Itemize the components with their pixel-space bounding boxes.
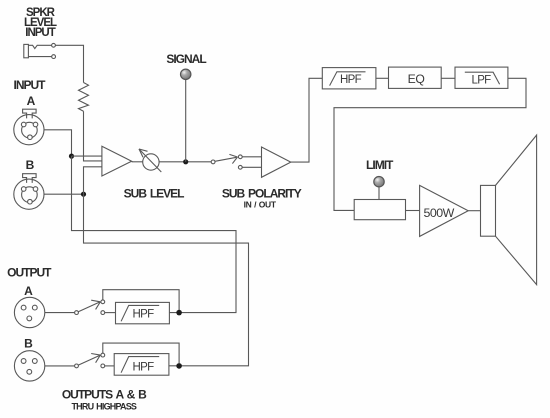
svg-text:EQ: EQ	[408, 72, 425, 86]
wire LPF to limiter	[334, 78, 526, 210]
op-amp U2 SUB POLARITY	[262, 147, 291, 177]
wire XLR out B to switch	[45, 365, 75, 367]
connector XLR input A	[14, 109, 44, 145]
wire switch contacts to sub polarity amp	[242, 157, 261, 168]
svg-text:HPF: HPF	[133, 308, 155, 320]
wire A junction to amp input 1	[72, 155, 102, 157]
svg-text:THRU HIGHPASS: THRU HIGHPASS	[71, 401, 136, 411]
svg-text:B: B	[24, 337, 33, 351]
connector XLR output B	[14, 351, 44, 381]
node input B junction	[81, 192, 86, 197]
wire switch to HPF B	[105, 365, 115, 367]
filter HPF output B	[114, 354, 169, 376]
wire XLR B to junction	[44, 193, 84, 195]
svg-text:HPF: HPF	[133, 362, 155, 374]
filter HPF output A	[116, 302, 170, 323]
wire bypass A	[103, 290, 179, 310]
svg-text:LIMIT: LIMIT	[366, 158, 394, 172]
wire HPF to EQ	[376, 77, 389, 79]
wire resistor to sub level amp input 2	[84, 111, 102, 161]
svg-text:SUB LEVEL: SUB LEVEL	[124, 187, 185, 201]
svg-text:IN / OUT: IN / OUT	[244, 200, 277, 210]
wire B thru feed to output B	[84, 194, 249, 366]
wire amp to pot	[132, 161, 143, 163]
filter LPF	[455, 67, 508, 88]
speaker LS1	[481, 135, 537, 285]
svg-text:LPF: LPF	[472, 74, 492, 86]
wire amp to speaker	[468, 210, 480, 212]
amplifier 500W	[420, 185, 469, 236]
wire switch to HPF A	[105, 312, 116, 314]
switch output A	[75, 300, 105, 315]
svg-text:OUTPUTS A & B: OUTPUTS A & B	[62, 387, 147, 401]
svg-text:INPUT: INPUT	[25, 27, 55, 39]
wire EQ to LPF	[441, 77, 455, 79]
label SPKR LEVEL INPUT	[24, 7, 57, 39]
svg-text:B: B	[26, 158, 35, 172]
wire bypass B	[103, 343, 179, 363]
LED limit	[374, 177, 384, 187]
wire LED limit stem	[378, 187, 380, 200]
node signal junction	[183, 159, 188, 164]
connector J1 speaker level input jack	[24, 43, 56, 58]
node output B junction	[176, 363, 182, 369]
node output A junction	[176, 310, 182, 316]
wire A thru feed to output A	[72, 156, 237, 313]
wire sub polarity amp to HPF	[291, 78, 323, 162]
wire junction to signal LED	[185, 80, 187, 162]
wire jack to resistor	[55, 45, 83, 82]
filter EQ	[389, 67, 442, 88]
LED signal	[181, 69, 191, 79]
filter HPF main	[322, 68, 376, 89]
resistor R1	[79, 83, 89, 112]
limiter block	[354, 200, 405, 220]
connector XLR input B	[14, 174, 44, 210]
svg-text:500W: 500W	[424, 206, 455, 220]
switch output B	[75, 353, 105, 368]
wire XLR A to junction	[44, 130, 72, 156]
wire pot to switch	[159, 161, 211, 163]
switch sub polarity	[211, 154, 242, 169]
svg-text:HPF: HPF	[340, 74, 362, 86]
svg-text:INPUT: INPUT	[14, 78, 47, 92]
potentiometer sub level	[139, 149, 161, 172]
wire XLR out A to switch	[45, 312, 75, 314]
connector XLR output A	[14, 297, 44, 327]
svg-text:OUTPUT: OUTPUT	[7, 265, 52, 279]
wire B junction to amp input 3	[84, 167, 102, 194]
node input A junction	[69, 154, 74, 159]
svg-text:SIGNAL: SIGNAL	[166, 52, 206, 66]
svg-text:A: A	[27, 94, 36, 108]
svg-text:SUB POLARITY: SUB POLARITY	[222, 187, 302, 201]
svg-text:A: A	[24, 284, 33, 298]
op-amp U1 SUB LEVEL	[102, 146, 132, 176]
wire limiter to power amp	[406, 210, 420, 212]
